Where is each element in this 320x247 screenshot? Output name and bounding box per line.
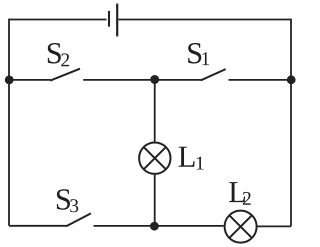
label S3 [57,189,78,212]
wire right vertical [290,19,292,227]
wire bottom-middle segment [94,225,224,227]
node junction dot bottom-center [150,222,159,231]
label L2 [229,182,251,205]
wire middle-center segment [83,79,201,81]
wire bottom-right segment [258,225,292,227]
label S1 [188,43,209,65]
label L1 [179,147,204,170]
lamp L1 cross [144,147,166,169]
label S2 [48,43,69,66]
lamp L2 circle [225,211,257,243]
node junction dot left-middle [5,76,14,85]
switch S1 blade [201,69,226,80]
switch S2 blade [50,69,80,81]
wire L1 branch lower [154,175,156,226]
node junction dot right-middle [287,75,296,84]
wire L1 branch upper [154,80,156,142]
wire left vertical [8,19,10,226]
wire middle-right segment [229,79,292,81]
lamp L1 circle [139,143,170,174]
battery B1 long plate [116,4,118,37]
switch S3 blade [66,213,91,226]
wire top-left segment [9,19,107,21]
wire top-right segment [119,19,292,21]
wire bottom-left segment [9,225,67,227]
lamp L2 cross [229,215,252,238]
node junction dot center-middle [150,75,159,84]
wire middle-left segment [9,79,51,81]
battery B1 short plate [108,11,110,27]
